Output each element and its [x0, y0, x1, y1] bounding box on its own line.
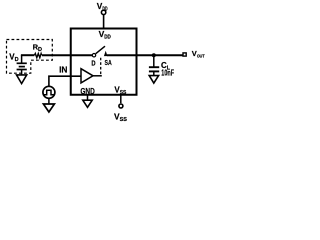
- ground below pulse source: [43, 104, 54, 112]
- wire: pulse source to ground: [48, 98, 50, 104]
- battery VD: [17, 55, 27, 75]
- wire: rail right of switch: [107, 54, 183, 56]
- ground below CL: [149, 76, 158, 84]
- wire: RD to switch pole: [42, 54, 92, 56]
- svg-text:GND: GND: [80, 86, 94, 96]
- switch arm: [96, 46, 105, 54]
- VDD terminal: [101, 10, 105, 14]
- GND pin wire: [87, 96, 89, 101]
- svg-text:10nF: 10nF: [161, 68, 174, 77]
- VDD pin wire: [103, 15, 105, 29]
- ground below VD: [17, 75, 27, 84]
- driver buffer: [81, 69, 93, 83]
- dashed control line: [100, 58, 102, 76]
- dashed source box: [7, 40, 53, 74]
- switch pole circle: [92, 54, 95, 57]
- junction node: [152, 53, 156, 57]
- wire: pulse source to buffer input: [49, 76, 81, 86]
- buffer output wire: [93, 75, 102, 77]
- VOUT terminal: [183, 53, 186, 56]
- IC box U1: [71, 29, 137, 95]
- resistor RD: [35, 54, 42, 58]
- svg-text:IN: IN: [59, 66, 68, 75]
- svg-text:SA: SA: [105, 58, 113, 67]
- switch contact SA: [104, 51, 108, 56]
- capacitor CL: [149, 55, 159, 75]
- pulse source V1: [43, 86, 55, 98]
- svg-text:D: D: [91, 58, 96, 67]
- VSS pin wire: [120, 96, 122, 104]
- ground below GND pin: [83, 100, 92, 107]
- wire: VD to RD: [21, 54, 35, 56]
- VSS terminal: [119, 104, 123, 108]
